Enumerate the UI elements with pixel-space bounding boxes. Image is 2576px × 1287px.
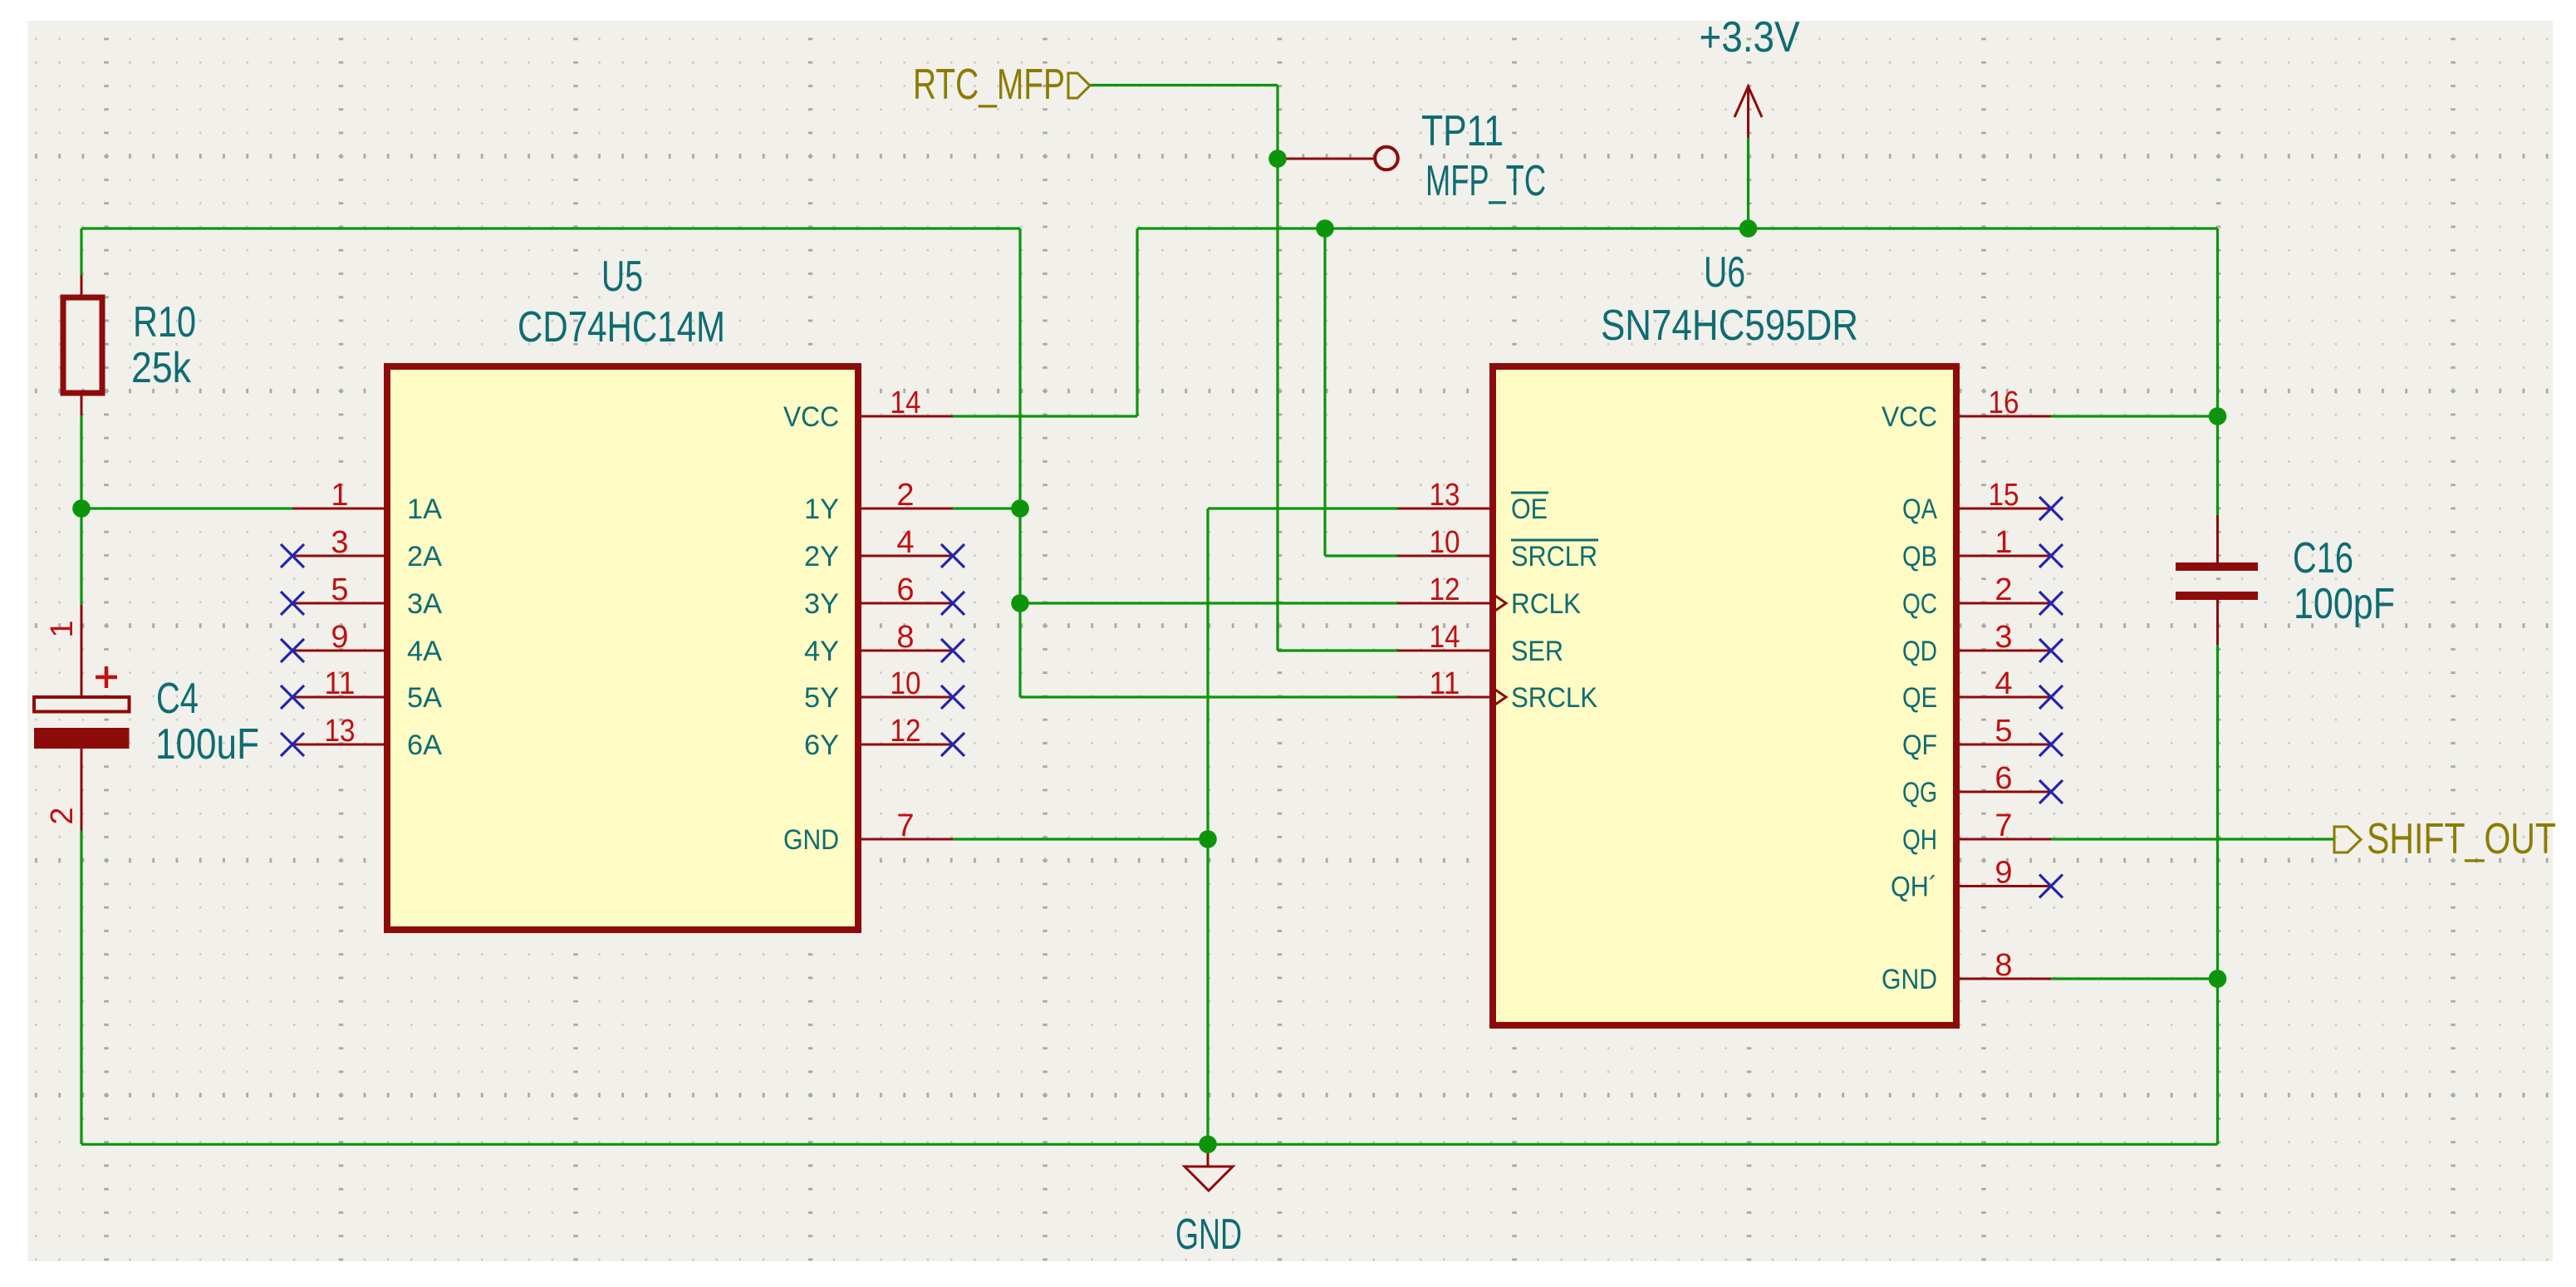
svg-text:100uF: 100uF xyxy=(155,720,259,769)
svg-text:2Y: 2Y xyxy=(804,541,839,572)
svg-text:TP11: TP11 xyxy=(1421,107,1504,155)
svg-text:3: 3 xyxy=(331,525,348,560)
svg-text:7: 7 xyxy=(1995,808,2012,843)
svg-text:13: 13 xyxy=(325,714,356,749)
svg-text:12: 12 xyxy=(891,714,921,749)
svg-text:5A: 5A xyxy=(407,682,442,714)
svg-text:2: 2 xyxy=(45,807,80,824)
svg-text:OE: OE xyxy=(1511,494,1548,525)
svg-text:5: 5 xyxy=(331,572,348,607)
svg-text:3: 3 xyxy=(1995,620,2012,655)
svg-text:GND: GND xyxy=(783,824,839,856)
svg-text:2: 2 xyxy=(1995,572,2012,607)
svg-text:9: 9 xyxy=(331,620,348,655)
svg-text:13: 13 xyxy=(1430,478,1460,513)
svg-text:6: 6 xyxy=(896,572,914,607)
svg-text:QH: QH xyxy=(1902,824,1937,856)
svg-text:1: 1 xyxy=(45,620,80,637)
svg-text:4A: 4A xyxy=(407,636,442,667)
svg-text:11: 11 xyxy=(325,666,356,701)
svg-text:RCLK: RCLK xyxy=(1511,588,1581,620)
svg-text:U5: U5 xyxy=(601,253,643,301)
svg-text:QA: QA xyxy=(1902,494,1937,525)
svg-text:11: 11 xyxy=(1430,666,1460,701)
svg-text:6: 6 xyxy=(1995,761,2012,796)
svg-text:5: 5 xyxy=(1995,714,2012,749)
svg-text:5Y: 5Y xyxy=(804,682,839,714)
svg-text:QF: QF xyxy=(1902,729,1937,761)
svg-text:14: 14 xyxy=(891,386,921,420)
svg-text:3Y: 3Y xyxy=(804,588,839,620)
svg-text:QB: QB xyxy=(1902,541,1937,572)
svg-text:SER: SER xyxy=(1511,636,1563,667)
svg-text:QD: QD xyxy=(1902,636,1937,667)
svg-text:+3.3V: +3.3V xyxy=(1700,13,1800,61)
svg-text:10: 10 xyxy=(891,666,921,701)
svg-text:QC: QC xyxy=(1902,588,1937,620)
svg-text:QG: QG xyxy=(1902,777,1937,808)
svg-text:9: 9 xyxy=(1995,856,2012,891)
svg-text:16: 16 xyxy=(1989,386,2019,420)
svg-text:10: 10 xyxy=(1430,525,1460,560)
svg-text:2A: 2A xyxy=(407,541,442,572)
svg-text:QE: QE xyxy=(1902,682,1937,714)
svg-text:12: 12 xyxy=(1430,572,1460,607)
svg-text:6A: 6A xyxy=(407,729,442,761)
svg-text:RTC_MFP: RTC_MFP xyxy=(913,61,1065,109)
svg-text:1: 1 xyxy=(331,478,348,513)
svg-text:7: 7 xyxy=(896,808,914,843)
svg-text:SN74HC595DR: SN74HC595DR xyxy=(1601,302,1858,350)
svg-text:4Y: 4Y xyxy=(804,636,839,667)
svg-text:25k: 25k xyxy=(131,344,192,392)
svg-text:SHIFT_OUT: SHIFT_OUT xyxy=(2367,815,2556,863)
svg-text:1Y: 1Y xyxy=(804,494,839,525)
svg-text:C4: C4 xyxy=(156,675,199,723)
svg-text:6Y: 6Y xyxy=(804,729,839,761)
svg-text:14: 14 xyxy=(1430,620,1460,655)
svg-text:SRCLR: SRCLR xyxy=(1511,541,1597,572)
svg-text:VCC: VCC xyxy=(1882,401,1937,433)
svg-text:GND: GND xyxy=(1882,964,1937,995)
svg-text:VCC: VCC xyxy=(783,401,839,433)
svg-text:GND: GND xyxy=(1175,1211,1242,1259)
svg-text:1: 1 xyxy=(1995,525,2012,560)
svg-text:CD74HC14M: CD74HC14M xyxy=(518,303,725,351)
svg-text:100pF: 100pF xyxy=(2294,580,2395,628)
svg-text:1A: 1A xyxy=(407,494,442,525)
svg-text:4: 4 xyxy=(1995,666,2012,701)
svg-text:QH´: QH´ xyxy=(1891,871,1937,902)
svg-text:C16: C16 xyxy=(2293,534,2353,582)
svg-text:15: 15 xyxy=(1989,478,2019,513)
svg-text:4: 4 xyxy=(896,525,914,560)
svg-text:SRCLK: SRCLK xyxy=(1511,682,1597,714)
svg-text:U6: U6 xyxy=(1704,248,1745,297)
svg-text:R10: R10 xyxy=(133,298,196,346)
svg-text:8: 8 xyxy=(896,620,914,655)
svg-text:3A: 3A xyxy=(407,588,442,620)
svg-text:2: 2 xyxy=(896,478,914,513)
svg-text:MFP_TC: MFP_TC xyxy=(1425,157,1546,205)
svg-text:8: 8 xyxy=(1995,948,2012,983)
